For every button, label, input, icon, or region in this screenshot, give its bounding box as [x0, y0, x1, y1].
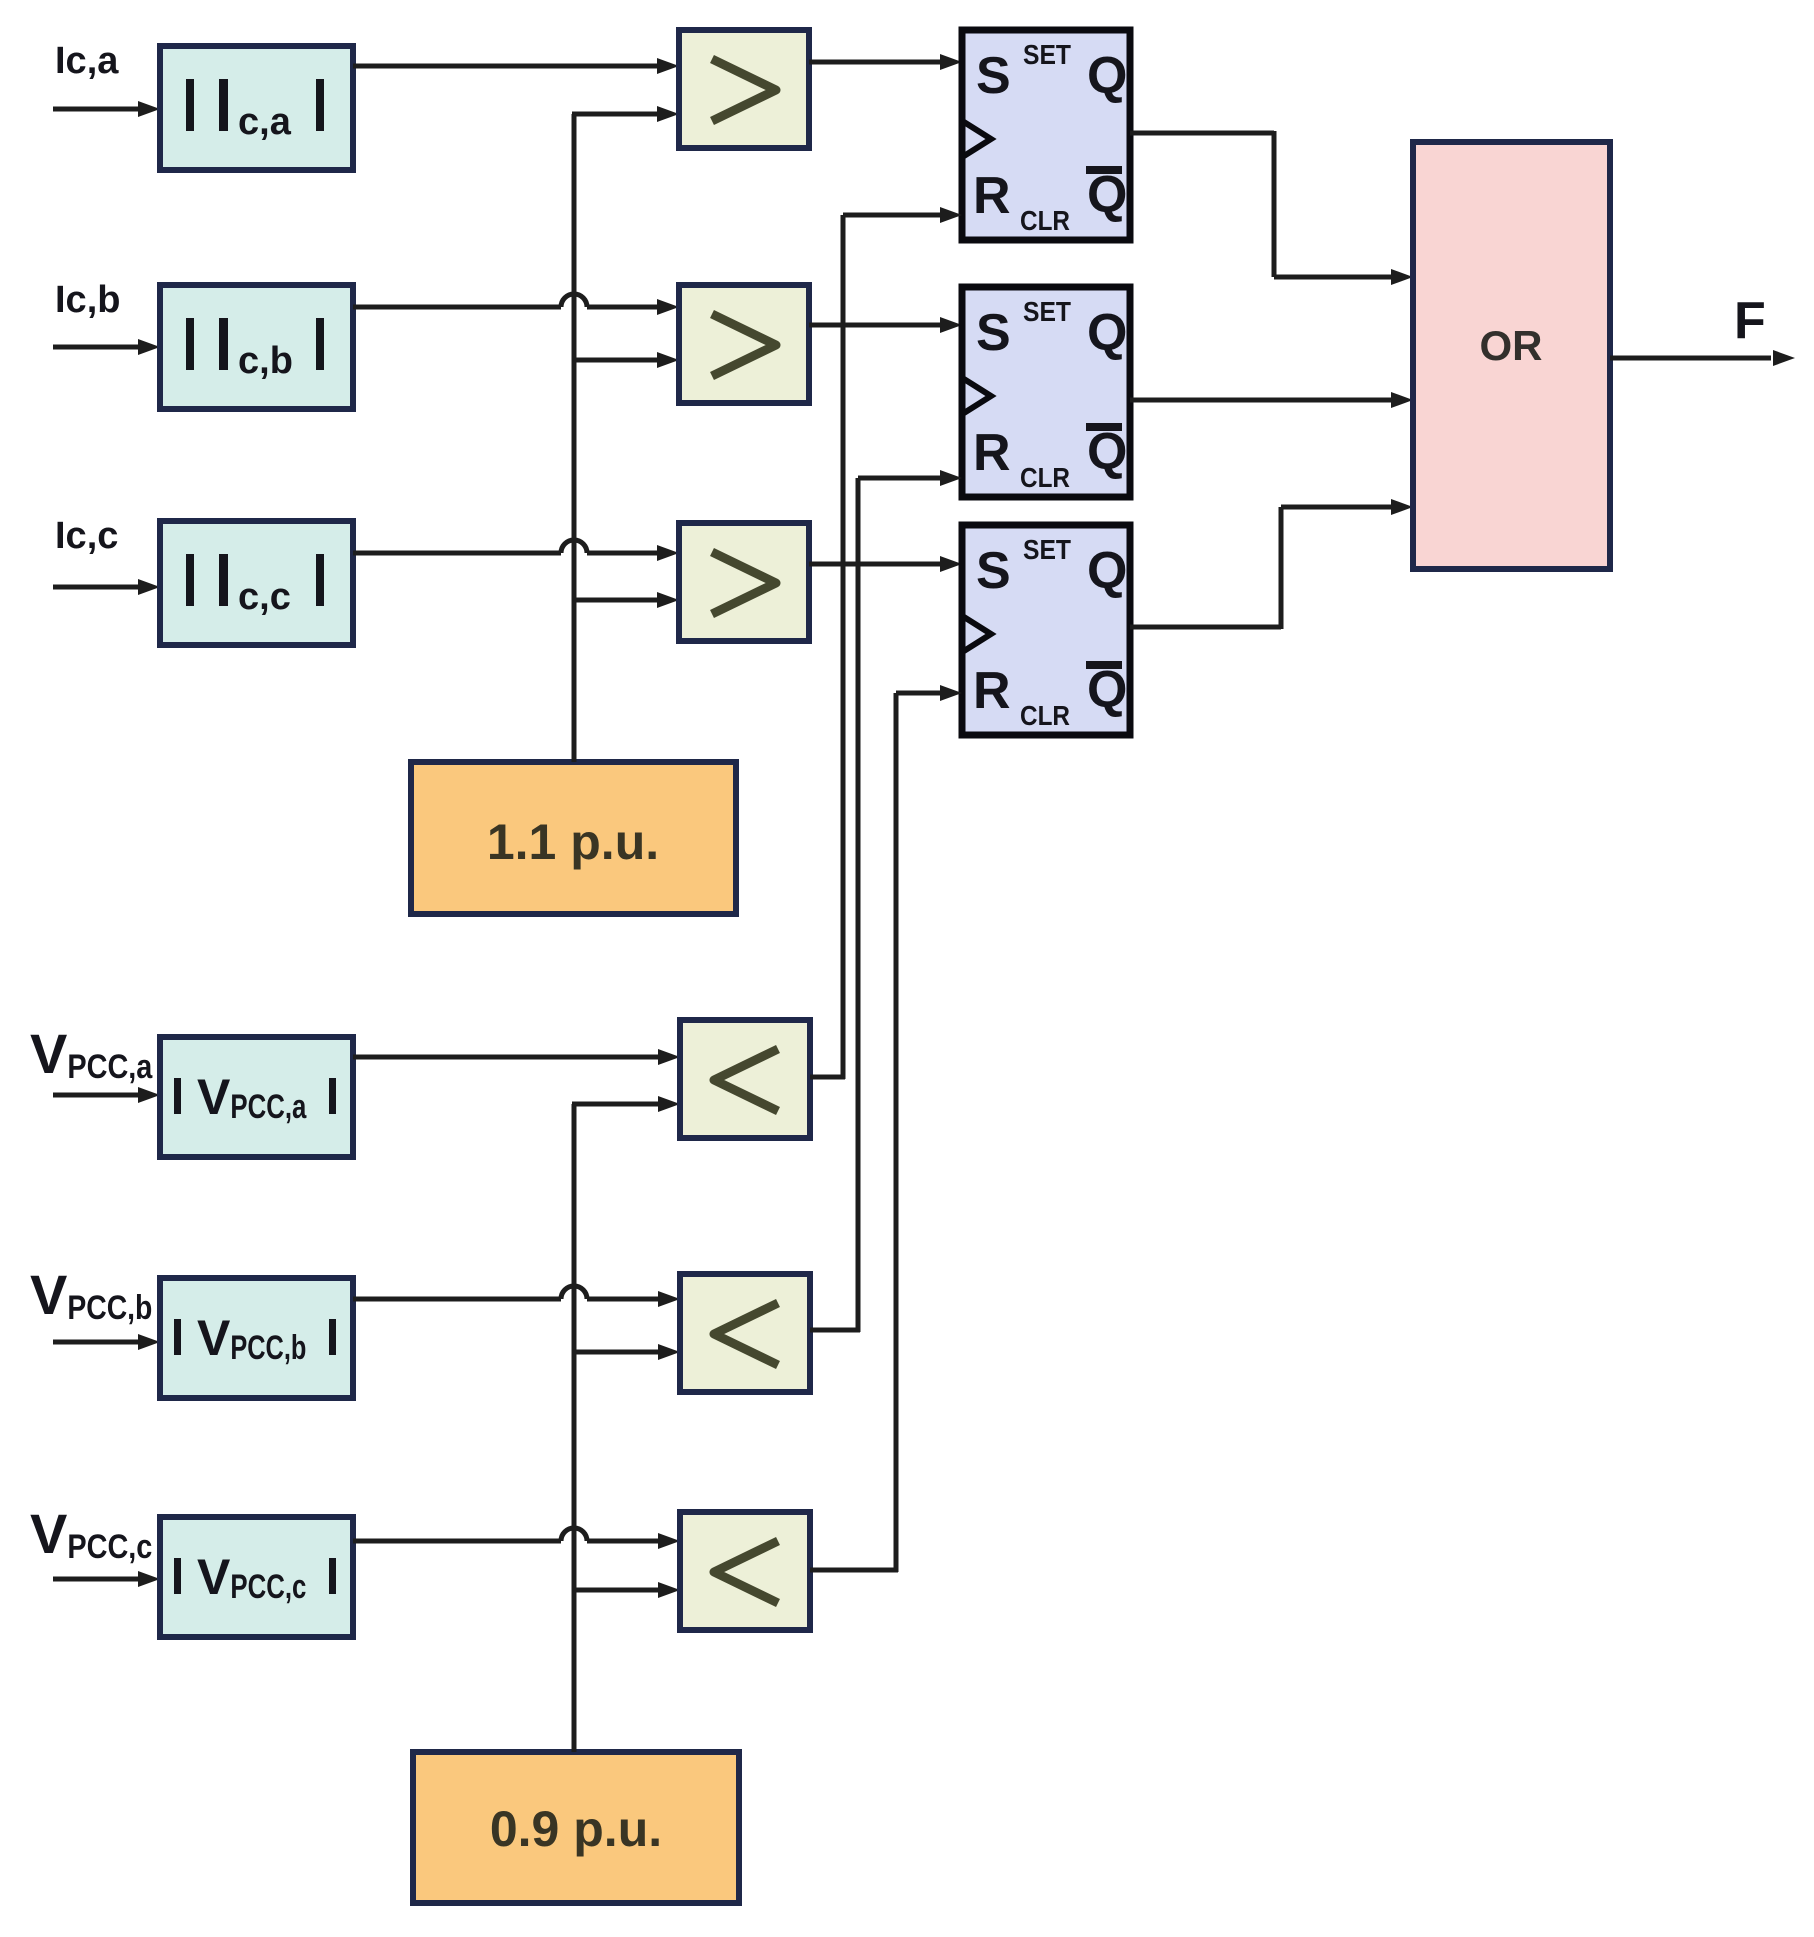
- wire bus0.9 branch to CMPb in2: [572, 1344, 680, 1360]
- node label Ic,c: [55, 515, 118, 557]
- svg-text:CLR: CLR: [1020, 462, 1070, 493]
- wire input arrow VPCC,c: [53, 1571, 160, 1587]
- svg-text:CLR: CLR: [1020, 700, 1070, 731]
- wire ABS-Vb to CMPb (hops 0.9 bus): [353, 1286, 680, 1307]
- wire bus0.9 to CMPa in2: [572, 1096, 680, 1112]
- svg-text:CLR: CLR: [1020, 205, 1070, 236]
- wire CMP3 to FF3 S (crosses reset lines): [809, 556, 962, 572]
- block ABS-Ia |Ic,a|: [160, 46, 353, 170]
- comparator CMPa less-than: [680, 1020, 810, 1138]
- svg-text:c,c: c,c: [238, 576, 291, 618]
- svg-text:1.1 p.u.: 1.1 p.u.: [487, 814, 659, 870]
- comparator CMPc less-than: [680, 1512, 810, 1630]
- comparator CMP3 greater-than: [679, 523, 809, 641]
- wire FF2 Q to OR input2: [1130, 392, 1413, 408]
- wire bus1.1 branch to CMP3 in2: [572, 592, 679, 608]
- node label Ic,a: [55, 40, 119, 82]
- wire FF1 Q to OR input1: [1130, 131, 1413, 285]
- wire bus1.1 branch to CMP2 in2: [572, 352, 679, 368]
- wire bus 0.9 p.u. vertical: [572, 1104, 577, 1752]
- svg-text:Q: Q: [1087, 661, 1127, 719]
- svg-text:OR: OR: [1480, 322, 1543, 369]
- wire bus1.1 to CMP1 in2: [572, 106, 679, 122]
- flip-flop FF2 S-R latch: [962, 287, 1130, 497]
- block ABS-Ib |Ic,b|: [160, 285, 353, 409]
- threshold block 1.1 p.u.: [411, 762, 736, 914]
- block ABS-Vc |VPCC,c|: [160, 1517, 353, 1637]
- block ABS-Vb |VPCC,b|: [160, 1278, 353, 1398]
- wire input arrow Ic,a: [53, 101, 160, 117]
- svg-text:Ic,b: Ic,b: [55, 279, 120, 321]
- svg-text:Q: Q: [1087, 542, 1127, 600]
- svg-text:Q: Q: [1087, 423, 1127, 481]
- svg-text:SET: SET: [1023, 296, 1071, 327]
- node label F: [1734, 292, 1766, 350]
- svg-text:c,a: c,a: [238, 101, 292, 143]
- wire bus0.9 branch to CMPc in2: [572, 1582, 680, 1598]
- wire CMPb to FF2 R: [810, 470, 962, 1332]
- svg-text:Ic,c: Ic,c: [55, 515, 118, 557]
- svg-text:Ic,a: Ic,a: [55, 40, 119, 82]
- wire ABS-Ia to CMP1: [353, 58, 679, 74]
- svg-text:Q: Q: [1087, 304, 1127, 362]
- svg-text:R: R: [973, 662, 1011, 720]
- wire ABS-Vc to CMPc (hops 0.9 bus): [353, 1528, 680, 1549]
- wire input arrow Ic,c: [53, 579, 160, 595]
- svg-text:SET: SET: [1023, 39, 1071, 70]
- node label VPCC,a: [30, 1022, 153, 1086]
- comparator CMPb less-than: [680, 1274, 810, 1392]
- svg-text:0.9 p.u.: 0.9 p.u.: [490, 1801, 662, 1857]
- comparator CMP2 greater-than: [679, 285, 809, 403]
- flip-flop FF3 S-R latch: [962, 525, 1130, 735]
- wire ABS-Ib to CMP2 (hops 1.1 bus): [353, 294, 679, 315]
- node label VPCC,b: [30, 1263, 152, 1327]
- svg-text:Q: Q: [1087, 47, 1127, 105]
- wire CMPc to FF3 R: [810, 685, 962, 1572]
- wire FF3 Q to OR input3: [1130, 499, 1413, 629]
- wire CMP1 to FF1 S: [809, 54, 962, 70]
- svg-text:S: S: [976, 542, 1011, 600]
- wire OR output F: [1610, 350, 1795, 366]
- wire bus 1.1 p.u. vertical: [572, 114, 577, 762]
- comparator CMP1 greater-than: [679, 30, 809, 148]
- node label Ic,b: [55, 279, 120, 321]
- wire input arrow VPCC,a: [53, 1087, 160, 1103]
- svg-text:c,b: c,b: [238, 340, 293, 382]
- threshold block 0.9 p.u.: [413, 1752, 739, 1903]
- svg-text:F: F: [1734, 292, 1766, 350]
- wire CMP2 to FF2 S (crosses reset line): [809, 317, 962, 333]
- svg-text:Q: Q: [1087, 166, 1127, 224]
- wire input arrow Ic,b: [53, 339, 160, 355]
- svg-text:R: R: [973, 167, 1011, 225]
- svg-text:S: S: [976, 47, 1011, 105]
- flip-flop FF1 S-R latch: [962, 30, 1130, 240]
- svg-text:S: S: [976, 304, 1011, 362]
- gate OR: [1413, 142, 1610, 569]
- wire ABS-Va to CMPa: [353, 1049, 680, 1065]
- block ABS-Ic |Ic,c|: [160, 521, 353, 645]
- svg-text:R: R: [973, 424, 1011, 482]
- node label VPCC,c: [30, 1502, 152, 1566]
- block ABS-Va |VPCC,a|: [160, 1037, 353, 1157]
- wire input arrow VPCC,b: [53, 1334, 160, 1350]
- svg-text:SET: SET: [1023, 534, 1071, 565]
- wire ABS-Ic to CMP3 (hops 1.1 bus): [353, 540, 679, 561]
- wire CMPa to FF1 R: [810, 207, 962, 1079]
